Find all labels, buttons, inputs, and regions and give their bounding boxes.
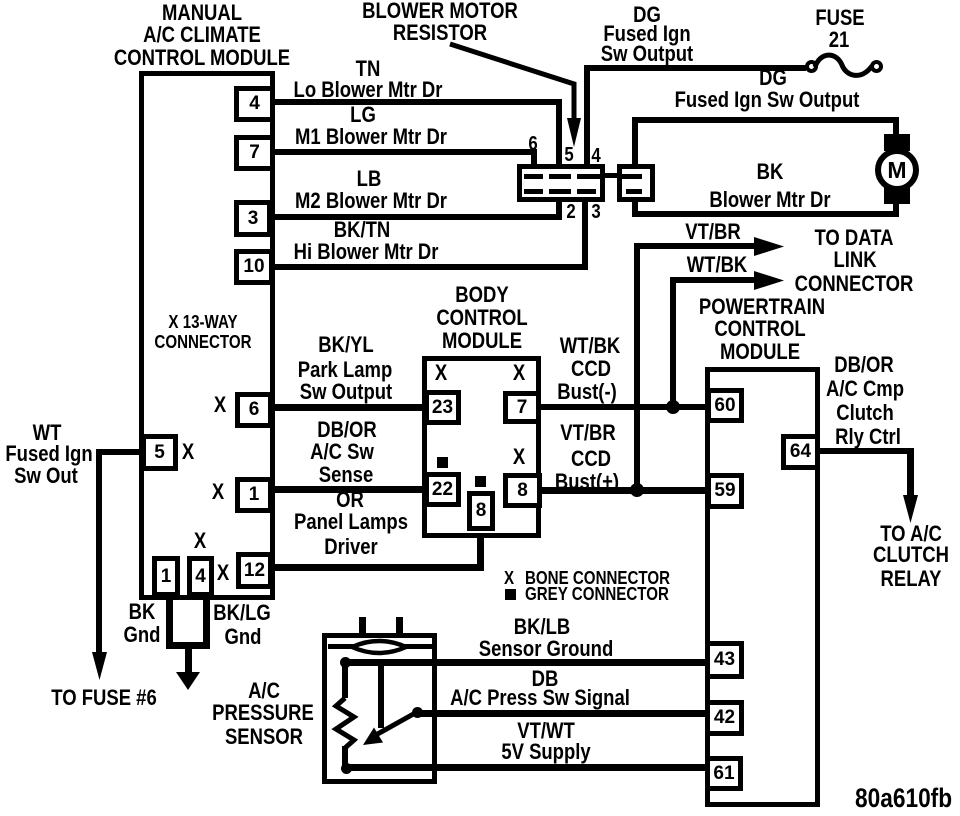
pin 8 BCM bottom bbox=[467, 491, 495, 531]
pin 4 bottom bbox=[187, 556, 214, 597]
pin 59 bbox=[706, 473, 744, 509]
DB/OR A/C sw sense label bbox=[317, 419, 377, 441]
arrow to data link connector VT/BR bbox=[754, 237, 784, 256]
pin 1 bbox=[235, 477, 273, 513]
wire TN Lo Blower Mtr Dr (pin 4 to resistor pin 5) bbox=[275, 99, 562, 105]
A/C pressure sensor label bbox=[248, 680, 280, 702]
pin 12 bbox=[236, 552, 273, 589]
sensor resistor top lead bbox=[342, 662, 348, 698]
BK/YL park lamp label bbox=[318, 334, 373, 356]
body control module box bbox=[422, 356, 541, 538]
blower motor resistor callout arrowhead bbox=[567, 118, 581, 147]
BK motor label bbox=[757, 161, 784, 183]
LB wire label bbox=[357, 168, 382, 190]
arrow to fuse #6 bbox=[92, 652, 107, 680]
X mark at pin 1 bbox=[212, 481, 224, 503]
wire BK/LB sensor ground (sensor to PCM 43) bbox=[345, 659, 705, 666]
X mark BCM 23 bbox=[435, 362, 447, 384]
sensor wiper arrowhead bbox=[363, 728, 383, 746]
BK gnd label bbox=[129, 601, 156, 623]
pin 43 bbox=[705, 641, 744, 679]
wire WT/BK to data link connector bbox=[670, 277, 758, 283]
sensor lens lines bbox=[328, 644, 356, 649]
pin 61 bbox=[705, 756, 743, 791]
wire WT fused ign sw out (pin 5 to fuse #6) bbox=[99, 449, 144, 455]
pin 23 bbox=[424, 390, 461, 425]
sensor resistor zigzag bbox=[336, 698, 354, 748]
LG wire label bbox=[350, 104, 376, 126]
motor terminal block bottom bbox=[884, 187, 910, 204]
BK/LG gnd label bbox=[213, 602, 271, 624]
pin 8 BCM right bbox=[503, 473, 542, 508]
grey connector square middle bbox=[475, 476, 486, 487]
pin 42 bbox=[705, 700, 744, 736]
pin 22 bbox=[424, 472, 461, 507]
PCM title bbox=[699, 296, 825, 318]
A/C pressure sensor box bbox=[322, 633, 437, 784]
grey connector legend bbox=[505, 589, 516, 600]
DG label top bbox=[633, 4, 661, 26]
wire ground pins 1/4 to ground symbol bbox=[166, 597, 173, 646]
fuse label bbox=[815, 7, 864, 29]
pin 10 bbox=[234, 249, 274, 285]
BCM title bbox=[455, 284, 508, 306]
wire BK/YL park lamp sw output (pin 6 to BCM 23) bbox=[272, 404, 424, 411]
grey connector square left bbox=[437, 457, 448, 468]
pin 3 bbox=[234, 200, 272, 237]
junction dot VT/BR bbox=[630, 483, 644, 497]
sensor lens bbox=[352, 641, 406, 653]
ground symbol bbox=[176, 672, 200, 690]
to A/C clutch relay label bbox=[880, 523, 942, 545]
wire DG fused ign sw output (fuse 21 to resistor pin 4) bbox=[584, 65, 806, 71]
pin 7 BCM bbox=[503, 391, 541, 424]
resistor pin 2 label bbox=[566, 201, 575, 223]
pin 7 bbox=[234, 135, 275, 171]
fuse 21 left terminal bbox=[805, 60, 818, 73]
pin 4 bbox=[234, 86, 275, 122]
wire LB M2 Blower Mtr Dr (resistor pin 2 to pin 3) bbox=[275, 214, 562, 220]
sensor wiper dot bbox=[412, 707, 423, 718]
DB/OR clutch rly ctrl label bbox=[834, 354, 894, 376]
pin 6 bbox=[235, 392, 273, 428]
wire DB/OR A/C cmp clutch rly ctrl (PCM 64 to relay) bbox=[820, 448, 912, 454]
VT/BR CCD label bbox=[560, 422, 615, 444]
X bone connector legend bbox=[504, 569, 514, 587]
arrow to A/C clutch relay bbox=[903, 495, 918, 523]
WT fused ign sw out label bbox=[33, 422, 62, 444]
fuse 21 right terminal bbox=[870, 60, 883, 73]
resistor element dashes bbox=[524, 174, 543, 179]
sensor wiper arm bbox=[374, 712, 417, 736]
X mark BCM 7 bbox=[513, 362, 525, 384]
BK/LB sensor ground label bbox=[514, 616, 570, 638]
DB press sw signal label bbox=[532, 668, 559, 690]
BK/TN wire label bbox=[334, 219, 390, 241]
wire BK blower mtr dr bottom bbox=[635, 211, 899, 217]
resistor callout label bbox=[362, 0, 518, 22]
wire BK/TN Hi Blower Mtr Dr (resistor pin 3 to pin 10) bbox=[275, 264, 588, 270]
X mark at pin 5 bbox=[182, 441, 194, 463]
sensor node top dot bbox=[340, 657, 351, 668]
blower motor resistor box bbox=[517, 164, 605, 202]
TN wire label bbox=[356, 58, 381, 80]
sensor resistor bottom lead bbox=[342, 746, 348, 768]
arrow to data link connector WT/BK bbox=[754, 271, 784, 290]
to data link connector label bbox=[814, 227, 893, 249]
WT/BK CCD label bbox=[560, 335, 621, 357]
X mark at pin 12 bbox=[217, 562, 229, 584]
wire VT/WT 5V supply (sensor to PCM 61) bbox=[346, 764, 705, 771]
pin 1 bottom bbox=[152, 556, 180, 597]
resistor pin 6 label bbox=[528, 133, 537, 155]
blower motor resistor callout line bbox=[450, 44, 574, 122]
wire DB A/C press sw signal (sensor to PCM 42) bbox=[417, 710, 705, 717]
wire DB/OR A/C sw sense (pin 1 to BCM 22) bbox=[272, 486, 424, 493]
pin 64 bbox=[781, 434, 820, 470]
X mark at pin 6 bbox=[214, 394, 226, 416]
manual A/C climate control module box bbox=[139, 71, 275, 600]
fuse 21 element bbox=[815, 55, 872, 75]
pin 5 bbox=[141, 434, 178, 471]
X mark at pin 4 bottom bbox=[194, 530, 206, 552]
sensor middle vertical bbox=[378, 662, 384, 728]
sensor node bottom dot bbox=[341, 763, 352, 774]
diagram id 80a610fb bbox=[855, 787, 952, 809]
VT/BR arrow label bbox=[685, 221, 740, 243]
pin 60 bbox=[706, 388, 744, 423]
motor connector box bbox=[617, 164, 655, 202]
motor terminal block top bbox=[884, 134, 910, 151]
OR panel lamps label bbox=[336, 489, 364, 511]
wire VT/BR CCD Bust(+) (BCM 8 to PCM 59) bbox=[541, 487, 706, 494]
WT/BK arrow label bbox=[687, 254, 748, 276]
wire resistor to motor connector bbox=[605, 173, 617, 178]
powertrain control module box bbox=[705, 367, 820, 807]
module title bbox=[162, 2, 242, 24]
sensor top stubs bbox=[359, 617, 366, 637]
resistor pin 4 label bbox=[591, 145, 600, 167]
VT/WT 5V supply label bbox=[517, 720, 574, 742]
motor M bbox=[875, 148, 919, 192]
X 13-way connector label bbox=[168, 313, 237, 331]
to fuse #6 label bbox=[51, 687, 156, 709]
junction dot WT/BK bbox=[666, 400, 680, 414]
DG label motor bbox=[759, 67, 787, 89]
resistor pin 5 label bbox=[564, 144, 573, 166]
wire WT/BK CCD Bust(-) (BCM 7 to PCM 60) bbox=[541, 404, 706, 410]
wire BK blower mtr dr top bbox=[635, 117, 899, 123]
wire OR panel lamps driver (pin 12 to BCM 8) bbox=[274, 564, 482, 571]
wire VT/BR to data link connector bbox=[634, 243, 758, 249]
wire LG M1 Blower Mtr Dr (pin 7 to resistor pin 6) bbox=[275, 149, 537, 155]
motor connector dashes bbox=[622, 174, 642, 179]
X mark BCM 8 bbox=[513, 446, 525, 468]
resistor pin 3 label bbox=[591, 201, 600, 223]
